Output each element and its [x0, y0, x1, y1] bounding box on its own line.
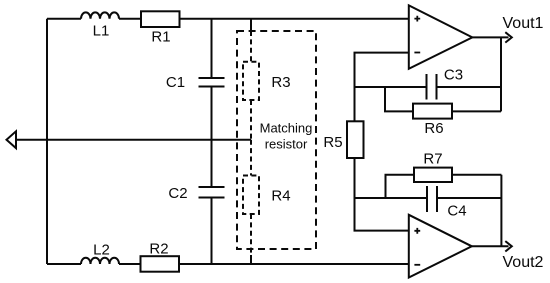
svg-text:R1: R1: [151, 29, 170, 46]
wire C3 to output node: [437, 86, 502, 88]
svg-text:resistor: resistor: [265, 137, 308, 152]
wire U1 minus input: [355, 53, 409, 122]
wire bottom rail left segment: [47, 263, 81, 265]
wire R6 to output node: [452, 110, 501, 112]
resistor R3 dashed: [250, 31, 252, 62]
resistor R1: [141, 11, 180, 27]
wire stub R4 to bottom rail: [250, 255, 252, 264]
svg-text:C2: C2: [168, 185, 187, 202]
svg-text:R6: R6: [424, 120, 443, 137]
input arrow: [7, 131, 17, 148]
wire C2 to bottom rail: [211, 198, 213, 265]
wire R2 to opamp U2 minus input: [179, 263, 409, 265]
wire output node vertical U2: [500, 175, 502, 247]
svg-text:C1: C1: [166, 74, 185, 91]
wire C4 to output node: [437, 197, 501, 199]
wire R1 to opamp U1 plus input: [180, 18, 409, 20]
wire C1 to C2: [211, 87, 213, 188]
wire top feedback line: [355, 86, 427, 88]
wire drop to R6: [385, 87, 413, 111]
resistor R6: [413, 104, 452, 119]
inductor L2: [81, 258, 119, 264]
wire stub top rail to R3: [250, 19, 252, 31]
op-amp U2: [409, 215, 472, 278]
wire bottom feedback line: [355, 197, 428, 199]
capacitor C1: [211, 19, 213, 78]
dashed box matching network: [237, 31, 316, 249]
svg-text:Matching: Matching: [260, 121, 313, 136]
wire R7 branch: [386, 175, 415, 198]
svg-text:L2: L2: [93, 242, 110, 259]
svg-text:C3: C3: [444, 67, 463, 84]
wire L1 to R1: [119, 18, 141, 20]
svg-text:C4: C4: [447, 203, 466, 220]
inductor L1: [81, 12, 119, 18]
wire R7 to output node: [452, 174, 501, 176]
resistor R4 dashed: [250, 140, 252, 176]
wire R5 to U2 plus input: [355, 158, 409, 231]
wire top rail left segment: [47, 18, 81, 20]
capacitor C2: [199, 187, 225, 198]
wire input middle: [16, 139, 251, 141]
capacitor C3: [427, 74, 437, 100]
svg-text:R7: R7: [423, 151, 442, 168]
svg-text:Vout1: Vout1: [503, 15, 544, 32]
svg-text:R2: R2: [149, 241, 168, 258]
wire output node vertical U1: [500, 37, 502, 111]
op-amp U1: [409, 5, 473, 68]
svg-text:L1: L1: [93, 23, 110, 40]
svg-text:Vout2: Vout2: [503, 254, 544, 271]
resistor R5: [347, 121, 364, 158]
wire U1 output: [472, 36, 508, 38]
svg-text:R5: R5: [323, 134, 342, 151]
wire U2 output: [472, 245, 509, 247]
resistor R2: [141, 256, 180, 272]
capacitor C4: [427, 186, 437, 212]
svg-text:R3: R3: [271, 74, 290, 91]
wire left vertical bus: [46, 19, 48, 264]
arrow Vout1: [505, 32, 512, 42]
wire L2 to R2: [119, 263, 141, 265]
resistor R7: [414, 168, 452, 182]
arrow Vout2: [505, 241, 512, 251]
svg-text:R4: R4: [271, 188, 290, 205]
